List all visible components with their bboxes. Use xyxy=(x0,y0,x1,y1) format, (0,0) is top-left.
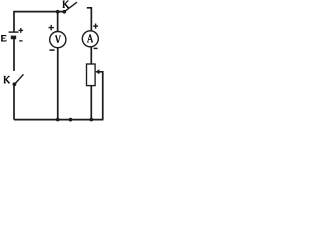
wire rheostat bottom to rail xyxy=(90,86,92,120)
wire ammeter bottom to rheostat top xyxy=(90,47,92,64)
ammeter - terminal label xyxy=(94,47,98,49)
voltmeter - terminal label xyxy=(49,49,54,51)
voltmeter letter V xyxy=(55,36,61,43)
wire battery negative to lower switch xyxy=(13,39,15,71)
node junction dot on rail middle xyxy=(69,118,73,122)
battery - label xyxy=(19,40,22,42)
wire lower switch to bottom rail xyxy=(13,84,15,119)
rheostat wiper arrowhead xyxy=(95,69,99,74)
voltmeter U1 circle xyxy=(50,31,66,47)
node junction dot rail / rheostat xyxy=(90,118,94,122)
label K of bottom switch xyxy=(4,76,10,83)
node junction dot rail / voltmeter xyxy=(56,118,60,122)
wire voltmeter branch top xyxy=(57,12,59,32)
switch K top: blade xyxy=(65,2,77,11)
battery E positive plate (long) xyxy=(9,31,19,33)
switch K top: terminal dot xyxy=(62,10,66,14)
wire top rail with top-left corner xyxy=(14,12,65,33)
label E xyxy=(1,35,6,42)
node junction dot top rail / voltmeter branch xyxy=(56,10,60,14)
wire bottom rail xyxy=(14,119,103,121)
ammeter U2 circle xyxy=(82,31,98,47)
ammeter + terminal label xyxy=(93,24,98,29)
switch K bottom: terminal dot xyxy=(13,82,17,86)
wire voltmeter branch bottom xyxy=(57,48,59,120)
rheostat R body xyxy=(87,64,96,86)
wire ammeter branch top with switch fixed contact tick xyxy=(87,8,92,31)
battery + label xyxy=(19,28,24,33)
switch K bottom: blade xyxy=(15,74,23,83)
ammeter letter A xyxy=(87,34,93,42)
wire rheostat wiper feed on right xyxy=(98,72,102,120)
background xyxy=(0,0,106,127)
voltmeter + terminal label xyxy=(49,25,54,30)
battery E negative plate (short thick) xyxy=(11,36,16,40)
label K of top switch xyxy=(63,1,69,8)
